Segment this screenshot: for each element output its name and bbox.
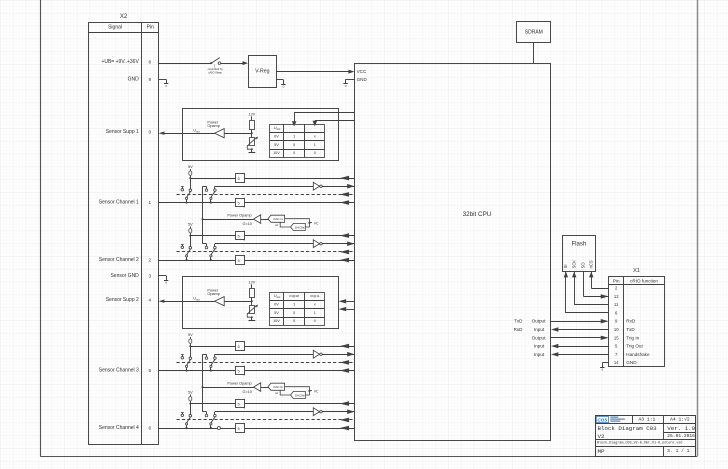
svg-text:0V: 0V (274, 135, 279, 139)
svg-text:0V: 0V (274, 303, 279, 307)
svg-text:SCK: SCK (572, 260, 577, 269)
svg-text:11: 11 (614, 302, 619, 307)
svg-text:G=10: G=10 (242, 390, 251, 394)
svg-text:SI: SI (563, 265, 568, 269)
svg-text:X1: X1 (633, 268, 640, 274)
svg-text:G=10: G=10 (242, 222, 251, 226)
svg-text:5V: 5V (274, 143, 279, 147)
svg-text:0: 0 (293, 151, 295, 155)
svg-text:+UB= +9V..+36V: +UB= +9V..+36V (101, 59, 139, 65)
svg-text:I²C: I²C (314, 389, 319, 393)
svg-text:25.01.2016: 25.01.2016 (667, 433, 695, 439)
svg-text:Input: Input (534, 344, 545, 349)
svg-text:V2: V2 (598, 433, 605, 440)
svg-text:Output: Output (532, 335, 547, 340)
svg-text:Signal: Signal (108, 24, 122, 30)
svg-text:Opamp: Opamp (207, 124, 219, 128)
svg-text:Uout: Uout (274, 294, 281, 298)
svg-text:15: 15 (614, 335, 619, 340)
svg-text:1: 1 (293, 303, 295, 307)
svg-text:12V: 12V (249, 113, 256, 117)
svg-text:Pin: Pin (147, 24, 154, 30)
svg-text:Uout: Uout (274, 126, 281, 130)
svg-text:0: 0 (314, 319, 316, 323)
svg-text:GND: GND (128, 76, 140, 82)
svg-text:Sensor Channel 1: Sensor Channel 1 (99, 200, 139, 206)
svg-text:Trig Out: Trig Out (626, 344, 643, 349)
svg-text:10V: 10V (273, 151, 280, 155)
svg-text:VCC: VCC (357, 69, 367, 74)
svg-text:TxD: TxD (514, 319, 523, 324)
svg-text:Flash: Flash (571, 241, 586, 248)
svg-text:x: x (314, 135, 316, 139)
svg-text:6: 6 (149, 425, 152, 430)
svg-text:DAC8a: DAC8a (295, 225, 305, 229)
svg-text:Sensor Supp 2: Sensor Supp 2 (106, 297, 139, 303)
svg-text:4: 4 (149, 298, 152, 303)
svg-text:A3 1:1: A3 1:1 (638, 417, 655, 423)
svg-text:X2: X2 (120, 14, 128, 20)
svg-text:5: 5 (149, 368, 152, 373)
svg-text:5V: 5V (188, 223, 193, 227)
svg-text:0: 0 (293, 143, 295, 147)
svg-text:Sensor Channel 3: Sensor Channel 3 (99, 368, 139, 374)
svg-text:Output: Output (532, 319, 547, 324)
svg-text:1: 1 (314, 311, 316, 315)
svg-text:Ver. 1.0: Ver. 1.0 (667, 425, 695, 432)
svg-text:ref: ref (275, 391, 278, 395)
svg-text:A4 1:√2: A4 1:√2 (670, 417, 690, 423)
svg-text:I²C: I²C (314, 221, 319, 225)
svg-text:MP: MP (598, 448, 605, 455)
svg-text:0: 0 (293, 319, 295, 323)
svg-text:Sensor Supp 1: Sensor Supp 1 (106, 129, 139, 135)
svg-text:8: 8 (149, 60, 152, 65)
svg-text:12: 12 (614, 294, 619, 299)
svg-text:1: 1 (293, 135, 295, 139)
svg-text:0: 0 (314, 151, 316, 155)
svg-text:Opamp: Opamp (207, 292, 219, 296)
svg-text:RxD: RxD (626, 319, 636, 324)
svg-text:1: 1 (149, 200, 152, 205)
svg-text:Sensor GND: Sensor GND (110, 273, 139, 279)
svg-text:5V: 5V (188, 391, 193, 395)
svg-text:Input: Input (534, 352, 545, 357)
svg-text:SDRAM: SDRAM (525, 30, 543, 36)
svg-text:1: 1 (314, 143, 316, 147)
svg-text:ref: ref (275, 223, 278, 227)
svg-text:2: 2 (149, 257, 152, 262)
svg-text:cRIO function: cRIO function (630, 278, 658, 283)
svg-text:10: 10 (614, 327, 619, 332)
svg-text:Block_Diagram_C03_V2-0_Omr_V1-: Block_Diagram_C03_V2-0_Omr_V1-0_extern.v… (597, 440, 682, 445)
svg-text:IO@28: IO@28 (289, 294, 299, 298)
svg-text:10V: 10V (273, 319, 280, 323)
svg-text:Sensor Channel 2: Sensor Channel 2 (99, 257, 139, 263)
svg-text:12V: 12V (249, 281, 256, 285)
svg-text:3: 3 (149, 273, 152, 278)
svg-text:5V: 5V (188, 333, 193, 337)
svg-text:GND: GND (626, 360, 637, 365)
svg-text:V-Reg: V-Reg (255, 69, 270, 75)
svg-text:Handshake: Handshake (626, 352, 650, 357)
svg-text:CGS: CGS (597, 417, 608, 422)
svg-text:DAC Ib: DAC Ib (274, 385, 284, 389)
svg-text:IO@11: IO@11 (310, 294, 320, 298)
svg-text:cRIO Sleep: cRIO Sleep (208, 70, 222, 74)
svg-text:Input: Input (534, 327, 545, 332)
svg-text:0: 0 (293, 311, 295, 315)
svg-text:14: 14 (614, 360, 619, 365)
svg-text:nCS: nCS (589, 260, 594, 268)
svg-text:Pin: Pin (613, 278, 620, 283)
svg-text:RxD: RxD (514, 327, 524, 332)
svg-text:9: 9 (149, 77, 152, 82)
svg-text:5V: 5V (274, 311, 279, 315)
svg-text:Block Diagram C03: Block Diagram C03 (598, 425, 658, 432)
svg-text:5V: 5V (188, 165, 193, 169)
svg-text:Power Opamp: Power Opamp (227, 382, 251, 386)
svg-text:Trig In: Trig In (626, 335, 639, 340)
svg-text:Power Opamp: Power Opamp (227, 214, 251, 218)
svg-text:S. 1 / 1: S. 1 / 1 (667, 448, 689, 454)
svg-text:0: 0 (149, 130, 152, 135)
svg-text:Sensor Channel 4: Sensor Channel 4 (99, 425, 139, 431)
svg-text:32bit CPU: 32bit CPU (463, 211, 492, 218)
svg-text:GND: GND (357, 77, 368, 82)
svg-text:SO: SO (581, 262, 586, 268)
svg-text:DAC Ia: DAC Ia (274, 217, 284, 221)
svg-text:DAC8b: DAC8b (295, 393, 305, 397)
svg-text:x: x (314, 303, 316, 307)
svg-text:TxD: TxD (626, 327, 635, 332)
